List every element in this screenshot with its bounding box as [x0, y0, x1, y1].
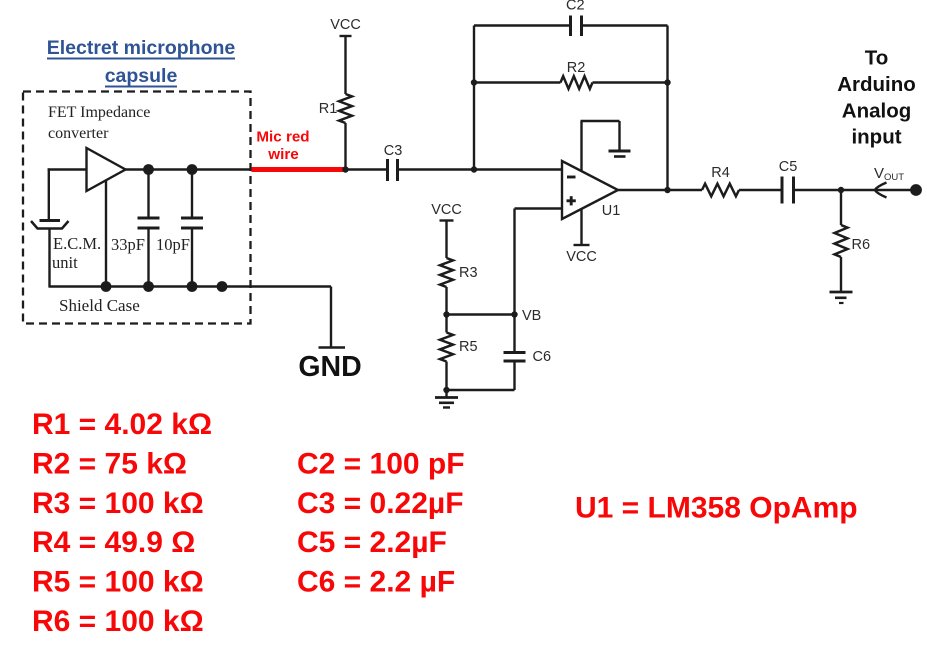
svg-text:R6 = 100 kΩ: R6 = 100 kΩ: [32, 605, 204, 638]
svg-text:converter: converter: [48, 125, 109, 142]
svg-text:C3: C3: [384, 143, 403, 159]
svg-text:R5 = 100 kΩ: R5 = 100 kΩ: [32, 566, 204, 599]
svg-text:VCC: VCC: [431, 202, 462, 218]
svg-text:C3 = 0.22µF: C3 = 0.22µF: [297, 487, 464, 520]
svg-text:R4: R4: [711, 165, 730, 181]
svg-text:U1: U1: [602, 203, 621, 219]
svg-text:E.C.M.: E.C.M.: [53, 234, 101, 253]
svg-text:C6: C6: [533, 349, 552, 365]
svg-text:R1: R1: [319, 101, 338, 117]
svg-text:GND: GND: [298, 351, 361, 383]
svg-text:Analog: Analog: [842, 99, 911, 122]
svg-text:R4 = 49.9 Ω: R4 = 49.9 Ω: [32, 526, 195, 559]
svg-text:VCC: VCC: [330, 17, 361, 33]
svg-text:R3 = 100 kΩ: R3 = 100 kΩ: [32, 487, 204, 520]
svg-text:VB: VB: [522, 308, 541, 324]
svg-text:C5 = 2.2µF: C5 = 2.2µF: [297, 526, 447, 559]
svg-text:To: To: [865, 47, 889, 70]
svg-text:C2 = 100 pF: C2 = 100 pF: [297, 447, 465, 480]
svg-text:R3: R3: [459, 265, 478, 281]
svg-text:U1 = LM358 OpAmp: U1 = LM358 OpAmp: [575, 492, 858, 525]
svg-text:R6: R6: [852, 237, 871, 253]
svg-text:C6 = 2.2 µF: C6 = 2.2 µF: [297, 566, 455, 599]
svg-text:Electret microphone: Electret microphone: [47, 37, 236, 59]
svg-text:R2 = 75 kΩ: R2 = 75 kΩ: [32, 447, 187, 480]
svg-text:C5: C5: [779, 159, 798, 175]
svg-text:capsule: capsule: [105, 65, 178, 87]
svg-text:R5: R5: [459, 339, 478, 355]
svg-text:wire: wire: [267, 146, 298, 163]
svg-text:Mic red: Mic red: [256, 129, 309, 146]
svg-text:R1 = 4.02 kΩ: R1 = 4.02 kΩ: [32, 408, 212, 441]
svg-text:VCC: VCC: [566, 249, 597, 265]
svg-text:R2: R2: [567, 60, 586, 76]
svg-text:unit: unit: [52, 253, 78, 272]
svg-text:33pF: 33pF: [111, 235, 145, 254]
svg-text:input: input: [851, 126, 901, 149]
svg-text:FET Impedance: FET Impedance: [48, 104, 150, 121]
svg-text:Arduino: Arduino: [837, 73, 916, 96]
svg-text:10pF: 10pF: [156, 235, 190, 254]
svg-text:Shield Case: Shield Case: [59, 296, 140, 315]
svg-text:C2: C2: [566, 0, 585, 14]
